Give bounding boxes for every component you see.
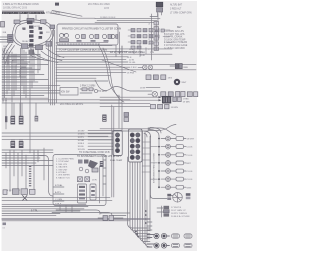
ground mark bottom left xyxy=(3,223,7,230)
svg-text:F 18 TAN FUEL GAGE: F 18 TAN FUEL GAGE xyxy=(164,44,188,47)
wire bottom full runs xyxy=(2,198,112,216)
wire corner to fusebox xyxy=(38,156,53,197)
lamp sockets row xyxy=(138,65,153,69)
svg-text:CLUS: CLUS xyxy=(187,147,193,149)
gauge symbol G5 xyxy=(111,35,118,39)
connector tag T2 xyxy=(11,141,24,148)
connector pair with keys xyxy=(78,177,98,182)
wire lower-left verticals xyxy=(6,148,44,192)
label ignition tags xyxy=(61,86,108,94)
svg-text:18 GRY: 18 GRY xyxy=(187,139,195,141)
wire heavy bottom line 2 xyxy=(2,220,130,222)
wire diagonal drop xyxy=(102,60,136,72)
wire stubs connector grid xyxy=(128,30,172,43)
wire runs to lamp rows xyxy=(100,97,161,106)
wire curve right descent xyxy=(98,44,120,97)
top right pigtail connector xyxy=(150,2,163,16)
wire stubs bundle to bus xyxy=(142,142,151,172)
label harness tags xyxy=(3,26,51,48)
label top caption row xyxy=(3,3,110,10)
svg-text:18 R: 18 R xyxy=(92,180,97,182)
connector row C xyxy=(148,92,198,97)
wire feed rows xyxy=(88,131,113,150)
svg-text:PRINTED CIRCUIT INSTRUMENT CLU: PRINTED CIRCUIT INSTRUMENT CLUSTER CONN xyxy=(62,28,121,31)
wire row five xyxy=(146,87,160,89)
svg-text:6. HTR A/C: 6. HTR A/C xyxy=(56,171,67,174)
wire bundle turns right xyxy=(128,223,151,247)
svg-text:3 RED ALT: 3 RED ALT xyxy=(170,8,182,11)
svg-text:18 B: 18 B xyxy=(129,49,134,51)
svg-text:RED: RED xyxy=(184,67,189,69)
wire lower-left grid horizontals xyxy=(2,156,53,166)
wire cluster drop bundle xyxy=(128,131,146,242)
svg-text:18 DBL GRN A/C 20 B: 18 DBL GRN A/C 20 B xyxy=(3,7,27,10)
wire left grid verticals xyxy=(3,48,40,153)
wire runs into cluster xyxy=(100,129,150,131)
connector small left xyxy=(29,50,33,55)
wire left drop verticals xyxy=(6,98,36,129)
svg-text:CLUS: CLUS xyxy=(187,155,193,157)
connector block dark xyxy=(162,96,171,103)
svg-text:18 LBL: 18 LBL xyxy=(78,146,85,148)
svg-text:1. CLUSTER FEED: 1. CLUSTER FEED xyxy=(56,159,75,161)
svg-text:18 TAN: 18 TAN xyxy=(78,139,85,142)
lamp socket L2 xyxy=(158,144,186,149)
junction dots xyxy=(135,210,146,237)
svg-text:6 RED: 6 RED xyxy=(28,49,35,51)
connector C3 xyxy=(41,20,47,24)
connector tag T4 xyxy=(100,161,104,167)
connector C6 xyxy=(22,44,28,49)
wire mid vertical xyxy=(119,46,122,131)
lamp socket L6 xyxy=(158,177,186,182)
fuse box bottom exits xyxy=(60,206,72,213)
wire right bus verticals xyxy=(151,136,160,198)
wire dashed run xyxy=(56,43,100,45)
svg-text:B TEAL: B TEAL xyxy=(55,184,63,187)
svg-text:2. STOP-HAZ: 2. STOP-HAZ xyxy=(56,160,70,163)
svg-text:20 BLK B+3 TURN: 20 BLK B+3 TURN xyxy=(171,216,190,218)
svg-text:18R: 18R xyxy=(3,46,7,48)
connector C5 pins xyxy=(9,36,12,40)
wire left grid horizontals xyxy=(2,55,130,104)
svg-text:18 BRN: 18 BRN xyxy=(171,107,179,109)
wire crossing X xyxy=(148,125,176,136)
fuse panel box xyxy=(53,155,106,206)
label dark header band xyxy=(2,11,60,15)
lamp socket L7 xyxy=(158,185,186,190)
gauge connector stack A xyxy=(113,131,122,156)
clock symbol xyxy=(151,193,191,203)
svg-text:BRT: BRT xyxy=(187,163,192,165)
gauge symbol G1 xyxy=(60,34,69,42)
wire corner turns xyxy=(8,56,32,77)
label run ends xyxy=(127,49,137,74)
wire lower band xyxy=(2,133,112,153)
svg-text:18 RED 20 BLK: 18 RED 20 BLK xyxy=(100,17,116,19)
gauge symbol G4 xyxy=(102,34,111,41)
wire stubs into fuse box xyxy=(53,187,64,201)
svg-text:INSTRUMENT PANEL CLUSTER: INSTRUMENT PANEL CLUSTER xyxy=(152,153,155,183)
connector C5 xyxy=(8,35,13,43)
wire entries to lamp bus xyxy=(144,128,161,138)
connector tag mid xyxy=(124,113,129,122)
svg-text:17 WHT B: 17 WHT B xyxy=(171,207,182,209)
connector C1 xyxy=(14,20,20,24)
svg-text:1 RED: 1 RED xyxy=(183,99,190,101)
svg-text:8. RADIO TCS: 8. RADIO TCS xyxy=(56,176,70,179)
connector row B xyxy=(146,75,173,80)
wire stubs from connector C5 to left edge xyxy=(0,37,8,42)
wire pigtail drop xyxy=(152,14,159,61)
svg-text:18 PPL TURN B: 18 PPL TURN B xyxy=(171,213,187,215)
connector C8 xyxy=(46,42,52,47)
wire bottom-right stubs xyxy=(147,222,152,230)
svg-text:20 LT BLU-91 18 PPL: 20 LT BLU-91 18 PPL xyxy=(60,103,84,106)
connector pair right xyxy=(170,64,189,69)
junction blob xyxy=(30,50,35,56)
svg-text:CLUS: CLUS xyxy=(187,171,193,173)
connector left edge box xyxy=(1,22,5,28)
paper background xyxy=(0,0,199,253)
legend connector stack xyxy=(2,22,198,249)
multi pin column A xyxy=(78,184,87,203)
svg-text:3 PNK 12 BRN: 3 PNK 12 BRN xyxy=(80,86,96,88)
svg-text:5 TPL: 5 TPL xyxy=(31,209,38,213)
connector row E xyxy=(151,104,179,109)
svg-text:3. TAIL LPS: 3. TAIL LPS xyxy=(56,163,68,166)
wire vertical right of fusebox xyxy=(100,155,104,203)
svg-text:20 R: 20 R xyxy=(140,55,145,57)
svg-text:KEY: KEY xyxy=(177,27,182,29)
svg-text:CLUS: CLUS xyxy=(187,179,193,181)
wire step-down runs xyxy=(52,210,130,216)
connector C7 xyxy=(36,45,43,50)
svg-text:20 LT BLU-91 1 BLK: 20 LT BLU-91 1 BLK xyxy=(88,3,110,6)
connector bottom row blocks xyxy=(3,189,35,201)
lamp socket L4 xyxy=(158,161,186,166)
connector block grid right of board xyxy=(131,29,164,50)
ignition switch assembly xyxy=(60,88,98,96)
label feed tags xyxy=(78,131,86,152)
svg-text:18 LT GRN 1 P: 18 LT GRN 1 P xyxy=(171,210,186,212)
connector tag T3 xyxy=(102,115,106,122)
svg-text:TO DIST: TO DIST xyxy=(98,91,108,93)
label bottom-right notes xyxy=(171,207,190,218)
svg-text:ALT(R) BAT: ALT(R) BAT xyxy=(170,4,183,7)
wire tag tick column xyxy=(29,166,31,186)
wire to lower left arcs xyxy=(3,42,15,64)
svg-text:GEN: GEN xyxy=(187,187,192,189)
label wire tags xyxy=(100,17,116,19)
label row one tags xyxy=(140,52,155,57)
lamp rect pair row 2 xyxy=(172,243,193,247)
wire run top right xyxy=(95,19,160,23)
svg-text:12V: 12V xyxy=(46,32,50,34)
svg-text:D 18 DK GRN TEMP: D 18 DK GRN TEMP xyxy=(164,39,186,41)
svg-text:18 GRY: 18 GRY xyxy=(78,131,86,133)
svg-text:HORN: HORN xyxy=(34,26,41,28)
svg-text:20 DBL: 20 DBL xyxy=(129,52,137,54)
connector C4 xyxy=(50,25,55,29)
wire harness loop inner xyxy=(15,22,51,45)
wire right-lower verticals xyxy=(147,136,150,242)
wire ticks on bracket xyxy=(103,160,106,184)
connector tag T1 xyxy=(5,116,38,125)
label left tags xyxy=(2,49,35,103)
wire cluster left edge vertical xyxy=(112,105,114,197)
lamp socket L3 xyxy=(158,152,186,157)
svg-text:WHT: WHT xyxy=(182,82,188,84)
fuse block detail xyxy=(78,160,98,173)
lamp pair bottom row 1 xyxy=(147,233,170,238)
gauge symbol G3 xyxy=(89,34,98,41)
wire drops to tags xyxy=(12,139,22,141)
svg-text:TO I/P CLUSTER CONN 18 BLK 2: TO I/P CLUSTER CONN 18 BLK 20 ORN xyxy=(59,48,107,52)
printed circuit connector small xyxy=(157,206,169,217)
lamp socket L1 xyxy=(158,136,186,141)
svg-text:18 BLK: 18 BLK xyxy=(78,143,85,145)
svg-text:FUEL TEMP: FUEL TEMP xyxy=(110,160,123,162)
svg-text:TO FUSE PANEL CONN 18 B: TO FUSE PANEL CONN 18 B xyxy=(79,151,110,154)
svg-text:IGN SW: IGN SW xyxy=(61,92,70,94)
svg-text:18 B: 18 B xyxy=(168,78,173,80)
svg-text:A 18 BRN IGN LPS: A 18 BRN IGN LPS xyxy=(164,30,184,33)
wire loop risers xyxy=(20,15,36,20)
svg-text:7. W/S WIPER: 7. W/S WIPER xyxy=(56,175,70,177)
harness interior blob column xyxy=(23,21,43,47)
wire fan lower right xyxy=(30,48,64,63)
inline connector pair xyxy=(98,216,123,221)
svg-text:C 18 PPL CRANK: C 18 PPL CRANK xyxy=(164,36,183,39)
connector C2 xyxy=(27,18,34,22)
svg-text:4. GAUGES: 4. GAUGES xyxy=(56,166,68,169)
gauge symbol G2 xyxy=(75,34,85,41)
svg-text:18 LBL: 18 LBL xyxy=(129,62,136,64)
svg-text:18 PPL: 18 PPL xyxy=(78,137,85,139)
lamp rect pair row 1 xyxy=(172,234,193,238)
svg-text:FORWARD LAMP HARNESS: FORWARD LAMP HARNESS xyxy=(2,11,45,15)
label fuse list xyxy=(56,159,75,180)
svg-text:18 TAN: 18 TAN xyxy=(183,100,190,103)
wire curve right descent 2 xyxy=(103,48,124,102)
wire drops from grid xyxy=(134,44,152,57)
label legend text block xyxy=(164,27,188,50)
lamp pair bottom row 2 xyxy=(147,243,170,248)
svg-text:A PPL: A PPL xyxy=(55,191,62,194)
svg-text:2 B: 2 B xyxy=(2,50,6,52)
svg-text:18 B: 18 B xyxy=(104,7,109,10)
instrument panel board box xyxy=(57,24,118,45)
wire squiggle run xyxy=(95,80,152,91)
svg-text:5. IGN UNIT: 5. IGN UNIT xyxy=(56,169,68,171)
svg-text:18 PNK: 18 PNK xyxy=(127,72,135,74)
gauge connector stack B xyxy=(129,129,143,162)
svg-text:RELAY: RELAY xyxy=(22,40,29,43)
connector row D right xyxy=(173,97,190,103)
svg-text:TO INSTRUMENT CLUSTER LPS 18: TO INSTRUMENT CLUSTER LPS 18 GRY xyxy=(77,156,121,158)
svg-text:LT GRN-COMP GRN: LT GRN-COMP GRN xyxy=(170,13,192,15)
wire main harness runs xyxy=(56,42,196,81)
svg-text:B 18 GRY TAIL LPS: B 18 GRY TAIL LPS xyxy=(164,33,185,36)
wire heavy bottom line xyxy=(2,218,150,220)
svg-text:20B: 20B xyxy=(3,32,7,34)
wire verticals below box xyxy=(116,32,122,57)
wire harness loop xyxy=(12,20,54,48)
indicator ring xyxy=(174,79,187,85)
wire row stubs from bus xyxy=(151,147,158,180)
svg-text:2 BLK: 2 BLK xyxy=(131,67,137,69)
wire sweep to board xyxy=(50,11,95,19)
lamp socket L5 xyxy=(158,169,186,174)
multi pin column B xyxy=(90,184,96,200)
svg-text:18 BRN: 18 BRN xyxy=(78,134,86,136)
label fuse-left stubs xyxy=(55,184,63,206)
label top right notes xyxy=(170,4,192,15)
svg-text:E 18 LT BLU HI BEAM: E 18 LT BLU HI BEAM xyxy=(164,41,187,44)
arrowheads xyxy=(159,96,162,101)
wire bundle vertical left of board xyxy=(49,30,57,105)
